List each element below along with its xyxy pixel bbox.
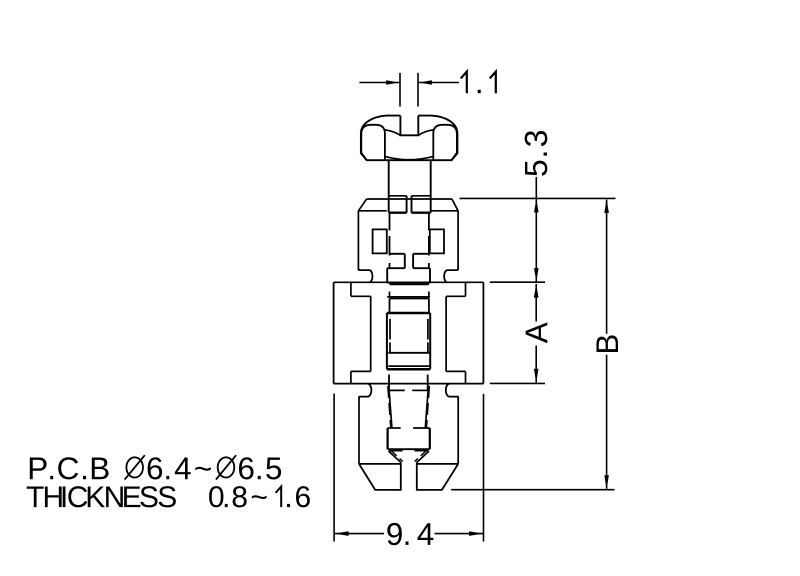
left foot top edge [359,463,401,465]
flange bottom edge [334,383,484,385]
barrel rung 2 [390,283,429,285]
screw slot left edge [406,196,408,213]
flange left step lower vertical [350,371,352,383]
barrel hidden right (dash segment) [428,292,430,297]
head dome upper-left arc [385,130,401,136]
barrel top edge left [387,267,405,269]
dim B line upper [606,200,608,334]
body right side [457,211,459,270]
barb top right [413,427,430,429]
dim A line upper [535,284,537,322]
dim 5.3 line [535,177,537,282]
dim 9.4 extension line left [333,394,335,542]
screw neck left edge [388,160,390,213]
dim A extension line bottom [490,382,545,384]
barb bottom 2 left [389,450,402,452]
screw slot left lower [404,254,406,268]
dim 9.4 line left [335,533,385,535]
note text P.C.B [30,457,109,479]
dim 9.4 arrowhead right [469,531,483,536]
dim B arrowhead up [604,199,609,213]
body front top edge right [431,210,458,212]
window bottom edge [387,368,430,371]
dim 5.3 arrowhead down [534,268,539,282]
neck bottom right segment [412,195,431,197]
screw hidden edge right (dashed) [428,214,430,269]
flange right step lower vertical [465,371,467,383]
dim text 5.3 (rotated) [525,131,548,176]
dim text 1.1 second 1 [490,72,496,94]
dim text B (rotated) [596,335,618,352]
flange left edge [333,282,335,383]
note text 6.4~ [148,457,211,479]
flange left step upper horizontal [351,295,371,297]
dim 1.1 arrow line right [419,82,459,84]
window left edge [386,313,388,369]
dim 1.1 arrow line left [359,82,399,84]
body left window [373,229,387,253]
body top back edge [367,198,452,200]
barrel hidden left (dash segment) [389,292,391,297]
screw in window right (dashed) [427,319,429,353]
head left lobe [361,125,385,160]
diameter symbol 2 [218,457,235,477]
dim text 9.4 [387,523,433,545]
neck bottom left segment [389,195,407,197]
dim A line lower [535,346,537,383]
screw tip neck left [388,375,390,391]
body left side [357,211,359,270]
dim text 1.1 first 1 [461,72,467,94]
barrel rung 3 [387,296,430,298]
flange right edge [482,282,484,383]
dim A arrowhead down [534,369,539,383]
dim 9.4 arrowhead left [335,531,349,536]
dim 9.4 line right [435,533,484,535]
barb bottom 2 right [415,450,428,452]
window rung 1 [388,352,429,354]
screw head outline [361,116,458,161]
tip V slant left [389,451,401,462]
screw hidden edge left (dashed) [389,214,391,269]
body front top edge left [358,210,386,212]
body top-left chamfer [358,199,366,211]
right foot [417,462,458,490]
flange right inner vertical [445,296,447,371]
dim B arrowhead down [604,475,609,489]
dim 5.3 arrowhead up [534,199,539,213]
tip taper solid left [389,390,392,428]
diameter symbol 1 [126,457,143,477]
lower-right groove hook [446,384,458,399]
barrel rung 4 [390,298,429,300]
flange left step lower horizontal [351,370,371,372]
head dome upper-right arc [418,130,433,136]
right foot top edge [417,463,458,465]
barrel left edge [386,268,388,283]
flange left step upper vertical [350,282,352,296]
screw shoulder left [389,211,407,213]
flange right step upper horizontal [446,295,465,297]
dim 1.1 arrowhead left [386,80,400,84]
tip V hidden right (dashed) [415,451,426,462]
barrel rung 1 [387,282,430,284]
note text 6.5 [239,457,281,479]
tip taper hidden left (dashed) [388,386,391,428]
barrel top edge right [413,267,430,269]
dim B line lower [606,355,608,489]
screw step right [413,253,429,255]
dim 1.1 extension line right [417,73,419,107]
dim text 1.1 dot [478,90,481,93]
dim 1.1 arrowhead right [418,80,432,84]
lower body right side [457,398,459,464]
screw in window left (dashed) [389,319,391,353]
note text 1 [276,487,282,508]
extension line top shared by 5.3 and B [460,197,616,199]
body top-right chamfer [452,199,458,211]
screw slot right lower [412,254,414,268]
note text 0.8~ [209,486,267,507]
screw tip neck right [427,375,429,391]
tip taper solid right [425,390,428,428]
dim 9.4 extension line right [483,394,485,542]
screw step left [390,253,405,255]
tip V slant right [417,451,429,462]
note text .6 [287,486,310,507]
tip ledge left [389,389,405,391]
flange top edge [334,281,484,283]
screw shoulder right [412,211,431,213]
lower body left side [358,398,360,464]
window top edge [387,312,430,315]
flange right step lower horizontal [446,370,465,372]
flange left inner vertical [370,296,372,371]
barb top left [388,427,401,429]
left foot [359,462,401,490]
head right lobe [433,125,457,160]
body right window [430,229,444,253]
tip ledge right [412,389,428,391]
barb right edge [429,428,431,449]
dim A arrowhead up [534,284,539,298]
barb bottom [388,448,430,450]
note text THICKNESS [27,486,176,507]
dim A extension line top [490,281,545,283]
lower-left groove hook [359,384,371,399]
barrel left lower edge [389,299,391,313]
tip V hidden left (dashed) [392,451,403,462]
window right edge [429,313,431,369]
dim text A (rotated) [526,322,548,343]
dim 1.1 extension line left [399,73,401,107]
dim B extension line bottom [451,489,614,491]
flange right step upper vertical [465,282,467,296]
screw neck right edge [430,160,432,213]
upper-right groove hook [444,268,458,282]
tip taper hidden right (dashed) [426,386,429,428]
screw slot right edge [411,196,413,213]
barrel right lower edge [428,299,430,313]
screw head slot [400,116,418,136]
barb left edge [387,428,389,449]
barrel right edge [429,268,431,283]
head dome lower arc [385,156,433,159]
upper-left groove hook [358,268,372,282]
window rung 2 [388,365,429,367]
